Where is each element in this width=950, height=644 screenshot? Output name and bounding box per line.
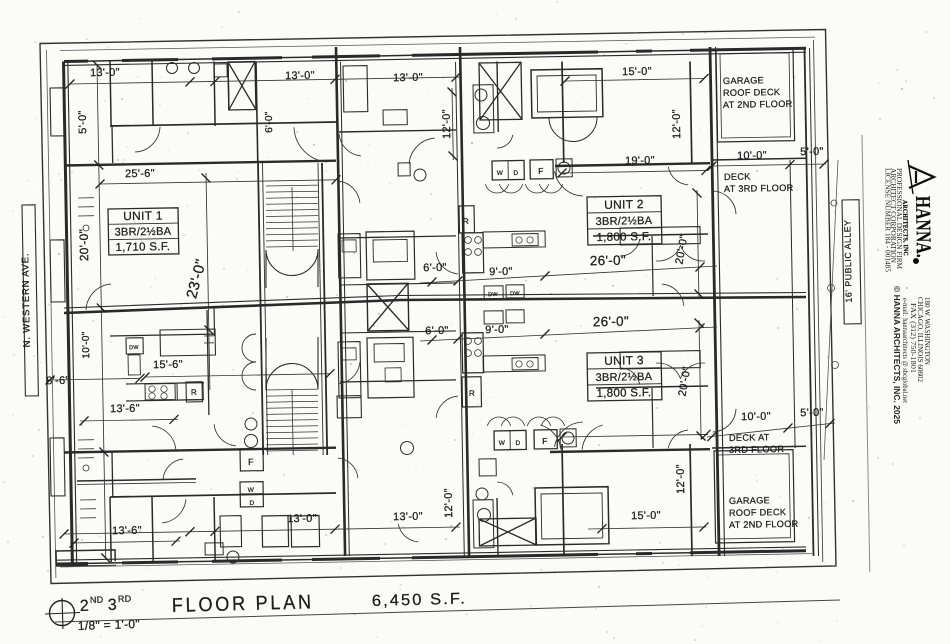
svg-text:19'-0": 19'-0" (625, 155, 655, 168)
svg-text:DECK AT: DECK AT (729, 432, 770, 443)
svg-text:e-mail: hannaarchitects @ sbcg: e-mail: hannaarchitects @ sbcglobal.net (901, 298, 908, 403)
svg-text:15'-0": 15'-0" (631, 510, 661, 523)
svg-text:ARCHITECTS, INC: ARCHITECTS, INC (901, 200, 909, 256)
svg-text:ROOF DECK: ROOF DECK (729, 507, 787, 518)
svg-text:10'-0": 10'-0" (741, 411, 771, 424)
svg-text:5'-0": 5'-0" (800, 407, 824, 419)
svg-text:F: F (542, 436, 548, 446)
svg-text:180 W. WASHINGTON: 180 W. WASHINGTON (923, 297, 930, 365)
svg-text:F: F (538, 166, 544, 176)
svg-text:DECK: DECK (724, 172, 751, 182)
svg-text:12'-0": 12'-0" (671, 109, 684, 139)
svg-text:D: D (515, 440, 520, 447)
svg-text:1,800 S.F.: 1,800 S.F. (596, 387, 651, 400)
svg-text:6,450 S.F.: 6,450 S.F. (372, 591, 467, 610)
svg-text:13'-0": 13'-0" (90, 67, 120, 80)
svg-text:26'-0": 26'-0" (590, 253, 626, 269)
svg-text:GARAGE: GARAGE (729, 495, 770, 506)
svg-text:1/8" = 1'-0": 1/8" = 1'-0" (78, 617, 141, 633)
svg-text:5'-0": 5'-0" (77, 110, 89, 134)
svg-text:13'-6": 13'-6" (112, 525, 142, 538)
svg-text:D: D (513, 170, 518, 177)
svg-text:FLOOR PLAN: FLOOR PLAN (172, 591, 315, 617)
svg-text:5'-0": 5'-0" (800, 146, 824, 158)
svg-text:ROOF DECK: ROOF DECK (723, 87, 781, 98)
svg-text:FAX (312) 750-1801: FAX (312) 750-1801 (909, 303, 916, 373)
svg-text:2: 2 (80, 598, 90, 615)
svg-text:N. WESTERN AVE.: N. WESTERN AVE. (20, 253, 33, 348)
svg-text:13'-0": 13'-0" (287, 513, 317, 526)
svg-text:LICENSE NUMBER 184 - 001485: LICENSE NUMBER 184 - 001485 (884, 168, 892, 273)
svg-text:16' PUBLIC ALLEY: 16' PUBLIC ALLEY (842, 219, 853, 302)
svg-text:D: D (249, 500, 254, 507)
svg-text:10'-0": 10'-0" (81, 331, 92, 359)
svg-text:ND: ND (90, 595, 104, 605)
svg-text:3BR/2½BA: 3BR/2½BA (114, 226, 171, 239)
svg-text:13'-0": 13'-0" (393, 511, 423, 524)
svg-text:DW: DW (510, 291, 520, 297)
svg-text:DW: DW (129, 345, 139, 351)
svg-text:© HANNA ARCHITECTS, INC. 2025: © HANNA ARCHITECTS, INC. 2025 (892, 286, 901, 425)
svg-text:12'-0": 12'-0" (441, 109, 454, 139)
svg-text:25'-6": 25'-6" (125, 168, 155, 181)
svg-text:F: F (248, 457, 254, 467)
svg-text:AT 2ND FLOOR: AT 2ND FLOOR (729, 519, 799, 530)
svg-text:CHICAGO, ILLINOIS 60602: CHICAGO, ILLINOIS 60602 (916, 297, 923, 383)
svg-text:9'-0": 9'-0" (485, 324, 509, 336)
svg-text:3BR/2½BA: 3BR/2½BA (595, 215, 652, 228)
svg-text:AT 2ND FLOOR: AT 2ND FLOOR (723, 99, 793, 110)
svg-text:3BR/2½BA: 3BR/2½BA (595, 371, 652, 384)
svg-text:8'-6": 8'-6" (46, 375, 70, 387)
svg-text:UNIT 1: UNIT 1 (123, 208, 163, 223)
svg-text:13'-0": 13'-0" (393, 72, 423, 85)
svg-text:12'-0": 12'-0" (443, 488, 456, 518)
svg-text:13'-0": 13'-0" (285, 70, 315, 83)
svg-text:1,710 S.F.: 1,710 S.F. (115, 241, 170, 254)
svg-text:R: R (469, 389, 475, 398)
svg-text:R: R (463, 217, 469, 226)
svg-text:W: W (499, 440, 506, 447)
svg-text:26'-0": 26'-0" (593, 314, 629, 330)
svg-text:10'-0": 10'-0" (737, 150, 767, 163)
svg-text:1,800 S.F.: 1,800 S.F. (596, 231, 651, 244)
svg-text:RD: RD (118, 594, 132, 604)
svg-text:3RD FLOOR: 3RD FLOOR (729, 444, 785, 455)
svg-text:3: 3 (108, 597, 118, 614)
svg-text:GARAGE: GARAGE (723, 75, 764, 86)
svg-text:6'-0": 6'-0" (423, 262, 447, 274)
svg-text:W: W (248, 487, 255, 494)
svg-text:15'-6": 15'-6" (153, 359, 183, 372)
svg-text:W: W (497, 170, 504, 177)
svg-text:6'-0": 6'-0" (425, 325, 449, 337)
svg-text:13'-6": 13'-6" (110, 403, 140, 416)
svg-text:R: R (191, 388, 197, 397)
svg-text:6'-0": 6'-0" (264, 111, 275, 133)
svg-text:12'-0": 12'-0" (675, 464, 688, 494)
svg-text:15'-0": 15'-0" (622, 66, 652, 79)
svg-text:20'-0": 20'-0" (77, 229, 92, 262)
svg-text:HANNA.: HANNA. (911, 196, 936, 258)
svg-text:DW: DW (488, 292, 498, 298)
svg-text:9'-0": 9'-0" (489, 266, 513, 278)
svg-text:UNIT 2: UNIT 2 (604, 197, 644, 212)
svg-text:UNIT 3: UNIT 3 (604, 353, 644, 368)
svg-text:AT 3RD FLOOR: AT 3RD FLOOR (724, 183, 794, 194)
